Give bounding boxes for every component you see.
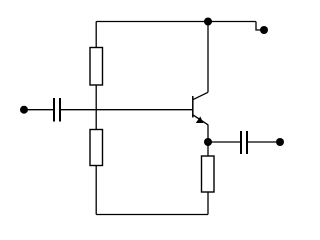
- resistor R1: [90, 48, 103, 86]
- wire C2 to output: [248, 141, 276, 143]
- wire emitter node to C2: [208, 141, 240, 143]
- wire R1 top to rail: [95, 22, 97, 48]
- wire collector up to rail: [207, 22, 209, 93]
- wire bottom rail: [96, 214, 208, 216]
- wire C1 to base: [61, 109, 193, 111]
- input terminal dot: [20, 106, 28, 114]
- resistor R2: [90, 130, 103, 166]
- transistor Q1: [193, 92, 208, 125]
- wire top rail: [96, 21, 256, 23]
- resistor R3: [202, 156, 215, 192]
- junction dot collector node: [204, 18, 212, 26]
- output terminal dot: [276, 138, 284, 146]
- wire input to C1: [24, 109, 53, 111]
- wire emitter down to node: [207, 125, 209, 142]
- wire bottom rail up to R3: [207, 192, 209, 215]
- capacitor C1: [54, 98, 60, 122]
- wire rail right drop: [256, 22, 261, 31]
- wire R3 top to emitter node: [207, 142, 209, 156]
- capacitor C2: [241, 131, 247, 154]
- junction dot emitter node: [204, 138, 212, 146]
- supply terminal dot: [260, 26, 268, 34]
- wire R1 bottom to R2 top: [95, 85, 97, 130]
- wire R2 bottom to bottom rail: [95, 166, 97, 215]
